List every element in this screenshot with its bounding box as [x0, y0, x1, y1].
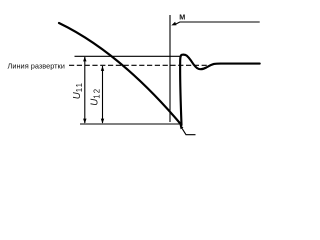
- dimension line U12: [102, 66, 104, 123]
- svg-text:U12: U12: [90, 88, 102, 106]
- svg-text:U11: U11: [72, 82, 84, 100]
- dashed sweep line: [69, 64, 211, 66]
- M leader line with arrow: [175, 22, 260, 25]
- M marker vertical line: [169, 15, 171, 122]
- vertex leader line with arrow: [182, 128, 196, 134]
- waveform curve: [59, 23, 260, 125]
- dimension line U11: [84, 57, 86, 123]
- solid peak-level line: [75, 55, 181, 57]
- svg-text:M: M: [179, 12, 185, 21]
- svg-text:Линия развертки: Линия развертки: [8, 62, 65, 71]
- baseline at waveform minimum: [80, 123, 182, 125]
